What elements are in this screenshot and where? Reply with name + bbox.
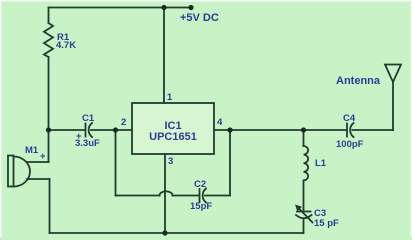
svg-text:UPC1651: UPC1651 (149, 131, 197, 143)
wire mic bottom lead (27, 178, 50, 180)
IC IC1 UPC1651 box (132, 103, 214, 154)
svg-text:3: 3 (168, 156, 173, 167)
svg-text:L1: L1 (315, 158, 327, 169)
svg-text:4.7K: 4.7K (56, 40, 76, 51)
wire bottom rail (50, 232, 304, 234)
wire hop over pin3 (160, 191, 173, 195)
wire hop to C2 (173, 195, 200, 197)
node R1/C1/mic junction (46, 127, 51, 132)
wire pin4 to C4 (214, 129, 347, 131)
C3 arrowhead (295, 205, 302, 212)
wire C2 to right riser (205, 195, 230, 197)
wire left vertical upper (R1 top lead) (48, 8, 50, 24)
svg-text:C1: C1 (82, 113, 95, 124)
node pin2 junction (113, 127, 118, 132)
wire bottom loop left (116, 195, 160, 197)
wire C4 to antenna corner (353, 129, 394, 131)
wire pin4 drop vertical (229, 130, 231, 196)
capacitor C4 (347, 123, 354, 137)
variable capacitor C3 (296, 209, 313, 223)
svg-text:2: 2 (121, 117, 126, 128)
node pin3 ground junction (162, 230, 167, 235)
svg-text:+: + (40, 151, 46, 162)
microphone M1 (8, 156, 30, 187)
svg-text:4: 4 (217, 117, 223, 128)
wire C1 to pin2 (91, 129, 132, 131)
wire C3 to bottom rail (303, 219, 305, 233)
capacitor C1 (86, 123, 93, 137)
svg-text:Antenna: Antenna (336, 75, 381, 87)
node +5V terminal (188, 5, 193, 10)
wire antenna stem (392, 82, 394, 130)
svg-text:+5V DC: +5V DC (180, 12, 219, 24)
wire pin2 drop vertical (115, 130, 117, 196)
wire L1 bottom lead (303, 181, 305, 212)
wire mic top lead (27, 161, 49, 163)
svg-text:C2: C2 (194, 179, 206, 190)
node L1 junction (301, 127, 306, 132)
svg-text:1: 1 (167, 92, 173, 103)
wire pin1 vertical (163, 8, 165, 104)
wire R1 bottom to mic junction (48, 57, 50, 130)
svg-text:15pF: 15pF (190, 201, 212, 212)
node top pin1 junction (161, 5, 166, 10)
svg-text:100pF: 100pF (336, 139, 364, 150)
resistor R1 (44, 23, 53, 57)
white page edges (0, 0, 412, 2)
node pin4 junction (227, 127, 232, 132)
svg-text:15 pF: 15 pF (314, 218, 339, 229)
antenna (385, 65, 401, 83)
inductor L1 (304, 146, 309, 180)
svg-text:C4: C4 (343, 113, 356, 124)
wire main horizontal left (junction to C1) (49, 129, 86, 131)
wire L1 top lead (303, 130, 305, 146)
capacitor C2 (200, 189, 207, 203)
wire mic junction down to mic top lead (48, 130, 50, 162)
wire mic bottom to ground rail (49, 179, 51, 233)
svg-text:M1: M1 (25, 145, 39, 156)
wire pin3 vertical (164, 154, 166, 233)
wire top rail (49, 7, 192, 9)
svg-text:3.3uF: 3.3uF (75, 138, 100, 149)
